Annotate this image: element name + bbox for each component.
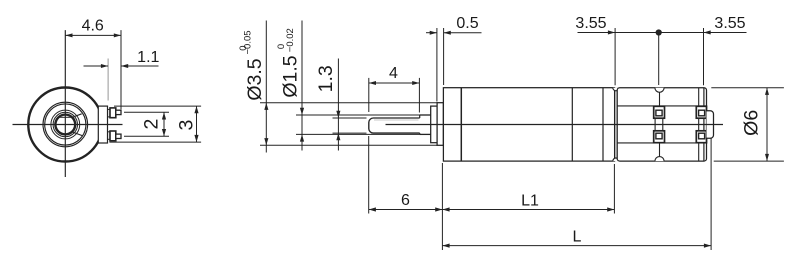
side view: shaft flat section (369, 118, 420, 133)
side view: magnet clip column vertical lines (655, 92, 663, 156)
side view: motor can bottom fold line (617, 142, 706, 144)
front view: motor housing outer circle (28, 88, 102, 162)
front view: shaft D-flat chord (59, 116, 73, 118)
svg-text:Ø3.5: Ø3.5 (244, 58, 266, 100)
dimension 3.55 first (junction to magnet clip) (575, 15, 658, 85)
front view: slot line lower-right (72, 132, 83, 136)
side view: extension line diameter 3.5 top (260, 102, 438, 104)
svg-text:1.3: 1.3 (315, 65, 337, 92)
dimension 4 (shaft flat length) (369, 65, 420, 113)
svg-text:0.5: 0.5 (456, 15, 478, 32)
side view: junction crimp notch bottom (613, 158, 619, 161)
svg-text:L: L (572, 229, 581, 246)
dimension 3 (terminal span) (109, 106, 201, 142)
front view: output shaft circle (thick) (55, 115, 75, 135)
svg-text:−0.02: −0.02 (285, 28, 296, 52)
front view: bearing circle (53, 112, 77, 136)
side view: extension line diameter 3.5 bottom (260, 144, 438, 146)
front view: lower terminal neck (108, 132, 111, 140)
dimension 1.3 (shaft flat) (315, 59, 341, 151)
dimension diameter 6 (motor body) (711, 88, 784, 161)
svg-text:4.6: 4.6 (82, 18, 104, 35)
front view: gearbox flange ring outer circle (43, 102, 88, 147)
side view: rear bearing boss (707, 111, 714, 139)
side view: can vent notch bottom (655, 157, 664, 162)
svg-text:3.55: 3.55 (575, 15, 606, 32)
front view: lower terminal lug (116, 134, 121, 138)
side view: junction crimp notch top (613, 88, 619, 91)
dimension 0.5 (pilot washer thickness) (426, 15, 482, 102)
side view: gearbox section line (571, 88, 573, 161)
side view: gearbox housing (443, 88, 614, 161)
svg-text:L1: L1 (521, 193, 539, 210)
svg-text:4: 4 (389, 65, 398, 82)
svg-text:Ø6: Ø6 (741, 110, 763, 136)
side view: magnet clip square upper (654, 106, 665, 118)
front view: horizontal centerline (13, 124, 123, 126)
dimension 2 (terminal pitch) (124, 112, 169, 136)
dimension node dot at magnet clip line (656, 29, 662, 85)
svg-text:3.55: 3.55 (714, 15, 745, 32)
side view: extension line diameter 1.5 bottom (296, 133, 421, 135)
dimension diameter 3.5 tolerance (238, 21, 269, 153)
front view: vertical centerline (64, 30, 66, 177)
side view: motor can body (617, 88, 706, 161)
side view: horizontal centerline (386, 124, 724, 126)
svg-text:−0.05: −0.05 (243, 30, 254, 54)
dimension 3.55 second (magnet clip to end cap) (659, 15, 747, 85)
side view: brush clip square lower (696, 131, 706, 143)
dimension 4.6 (center to lug) (65, 18, 121, 110)
side view: brush column line (698, 88, 700, 161)
side view: motor can top fold line (617, 105, 706, 107)
front view: terminal plate (98, 106, 107, 143)
side view: extension line diameter 1.5 top (296, 114, 421, 116)
front view: upper terminal body (110, 108, 116, 118)
side view: motor end cap line (703, 88, 705, 161)
front view: slot line upper-right (72, 114, 82, 118)
svg-text:2: 2 (141, 119, 163, 130)
side view: magnet clip square lower (654, 131, 665, 143)
side view: extension line 1.3 top (333, 117, 367, 119)
side view: gearbox end section line (602, 88, 604, 161)
side view: can vent notch top (655, 88, 664, 93)
side view: extension line 1.3 bottom (333, 132, 367, 134)
dimension L1 (gearbox length) (442, 164, 614, 214)
svg-text:1.1: 1.1 (137, 49, 159, 66)
front view: bearing boss circle (51, 110, 80, 139)
svg-text:3: 3 (176, 120, 198, 131)
front view: upper terminal lug (116, 110, 121, 114)
side view: shaft full diameter section (420, 115, 431, 134)
front view: lower terminal body (110, 131, 116, 141)
front view: upper terminal neck (108, 109, 111, 117)
svg-text:Ø1.5: Ø1.5 (280, 55, 302, 97)
dimension 6 (shaft length) (369, 136, 443, 214)
side view: brush clip square upper (696, 106, 706, 118)
dimension 1.1 (plate to lug tip) (84, 49, 160, 100)
side view: gearbox front plate line (460, 88, 462, 161)
svg-text:6: 6 (401, 192, 410, 209)
side view: shaft step collar (431, 106, 437, 143)
front view: gearbox flange ring inner circle (45, 104, 86, 145)
dimension L (overall length) (442, 138, 711, 251)
side view: gearbox-motor junction lines (615, 88, 618, 161)
side view: front pilot washer diameter 3.5 x 0.5 (437, 103, 443, 146)
dimension diameter 1.5 tolerance (276, 21, 304, 151)
